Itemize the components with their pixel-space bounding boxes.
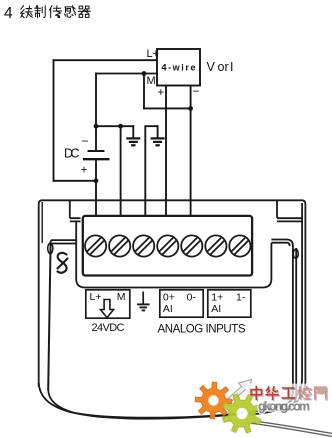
svg-text:24VDC: 24VDC: [92, 322, 125, 334]
svg-text:4: 4: [4, 5, 13, 22]
battery top plate (negative): [88, 150, 105, 152]
module top edge: [39, 200, 306, 205]
wire M branch horizontal to sensor minus: [144, 107, 191, 109]
svg-text:1-: 1-: [236, 292, 246, 304]
wire sensor minus down to 0- terminal: [190, 86, 192, 217]
module right outer edge: [249, 205, 305, 415]
node battery ground junction: [94, 124, 99, 129]
hollow down arrow 24VDC: [100, 300, 113, 318]
sensor box 4-wire: [157, 49, 200, 86]
terminal screw 1 L+: [85, 235, 106, 256]
module bottom curve outer: [39, 383, 244, 418]
svg-text:0-: 0-: [187, 292, 197, 304]
module right notch: [293, 249, 298, 258]
wire L+ horizontal from left loop to sensor box: [54, 59, 158, 61]
module right wing inner verticals: [280, 246, 293, 408]
感: [65, 6, 76, 18]
wire ground horizontal from battery: [96, 125, 133, 127]
label box 24VDC terminals: [86, 290, 130, 318]
terminal screw 2 M: [109, 235, 130, 256]
module left outer second line: [41, 202, 43, 243]
logo text 中华工控网 red: [251, 387, 326, 400]
svg-text:gkong.com: gkong.com: [258, 399, 310, 413]
器: [78, 6, 90, 17]
module left outer edge: [38, 205, 40, 387]
module bottom curve inner: [48, 390, 240, 419]
node M terminal junction: [118, 124, 123, 129]
svg-text:+: +: [81, 163, 88, 177]
orange gear: [195, 382, 232, 419]
制: [35, 6, 45, 18]
svg-text:1+: 1+: [211, 292, 223, 304]
svg-text:AI: AI: [163, 303, 173, 315]
ground symbol 1: [126, 138, 140, 145]
module right wing top: [271, 240, 293, 247]
node sensor minus junction: [188, 106, 193, 111]
wire ground1 stem: [132, 126, 134, 138]
battery DC source: [83, 151, 110, 159]
module left notch: [48, 243, 53, 253]
screw terminals: [85, 235, 250, 256]
svg-text:ANALOG INPUTS: ANALOG INPUTS: [158, 324, 246, 336]
wire battery + down to L+ terminal: [95, 159, 97, 217]
module left step vertical: [69, 200, 71, 218]
logo text 中华工控网 shadow: [252, 388, 327, 401]
svg-text:L+: L+: [147, 48, 160, 60]
svg-text:AI: AI: [211, 303, 221, 315]
swoosh lines to corner: [225, 418, 332, 437]
module right outer second line: [249, 203, 302, 412]
label box analog input 1: [208, 290, 251, 317]
wire M horizontal into sensor box: [96, 73, 157, 75]
terminal screw 5 AI0-: [181, 235, 202, 256]
terminal screw 3 earth: [133, 235, 154, 256]
wire bottom horizontal to battery junction: [54, 180, 97, 182]
svg-text:M: M: [117, 291, 126, 303]
svg-text:DC: DC: [64, 147, 80, 161]
wire battery top to M wire: [95, 74, 97, 152]
svg-text:0+: 0+: [163, 292, 175, 304]
module housing bottom edge: [85, 243, 271, 288]
module front face left edge: [76, 222, 85, 288]
terminal screw 7 AI1-: [229, 235, 250, 256]
wire M branch down: [143, 74, 145, 109]
wire sensor plus down to 0+ terminal: [165, 86, 167, 217]
module left inner ledge: [51, 240, 77, 243]
线: [21, 6, 33, 18]
svg-text:L+: L+: [90, 291, 102, 303]
module right step ledge: [277, 218, 302, 221]
node M-branch junction: [142, 71, 147, 76]
svg-text:+: +: [158, 87, 165, 99]
ground symbol 2: [151, 138, 165, 145]
module clamp symbol: [58, 253, 68, 273]
module left step ledge: [70, 218, 81, 221]
svg-text:VorI: VorI: [207, 60, 234, 74]
wire left vertical: [53, 60, 55, 181]
logo arrow: [225, 380, 252, 404]
junction dots: [94, 71, 193, 183]
svg-text:M: M: [147, 75, 156, 87]
wire M terminal vertical: [120, 126, 122, 217]
wire earth terminal up and over: [145, 126, 157, 217]
label row ground symbol: [137, 292, 150, 311]
wire ground2 stem: [157, 126, 159, 138]
terminal box: [83, 216, 252, 276]
terminal screw 6 AI1+: [205, 235, 226, 256]
battery bottom plate (positive): [83, 158, 110, 160]
label box analog input 0: [160, 290, 203, 317]
green gear: [223, 394, 262, 433]
title: 4 线制传感器: [4, 5, 90, 22]
svg-text:−: −: [82, 134, 89, 148]
logo text halos: [246, 384, 332, 401]
module right step vertical: [276, 200, 278, 218]
传: [50, 6, 62, 18]
module left inner edge: [48, 242, 50, 390]
terminal screw 4 AI0+: [157, 235, 178, 256]
svg-text:−: −: [193, 86, 200, 98]
node battery plus junction: [94, 178, 99, 183]
